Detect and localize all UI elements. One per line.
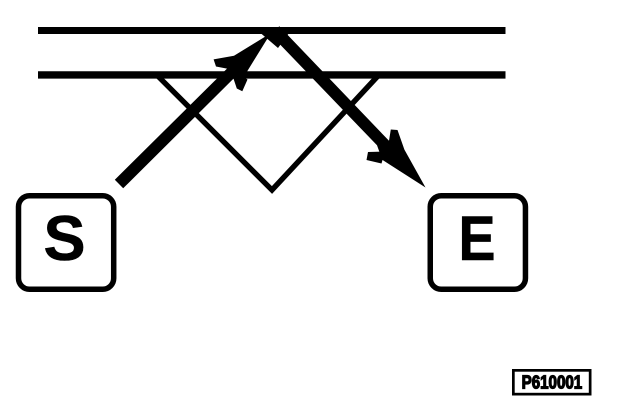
thin V reflection path	[158, 75, 378, 190]
arrow apex to E (thick arrow with head)	[271, 26, 426, 187]
svg-text:P610001: P610001	[522, 371, 583, 392]
lower surface line	[38, 71, 506, 78]
upper surface line	[38, 27, 506, 34]
svg-text:S: S	[43, 204, 85, 274]
svg-text:E: E	[459, 204, 496, 274]
box E	[430, 196, 525, 290]
arrow apex to E: left barb of head	[367, 152, 386, 164]
arrow S to apex (thick arrow with head)	[115, 33, 271, 188]
part number frame	[513, 370, 590, 394]
apex junction blob where both arrows meet under the top line	[261, 33, 290, 48]
box S	[19, 196, 114, 290]
